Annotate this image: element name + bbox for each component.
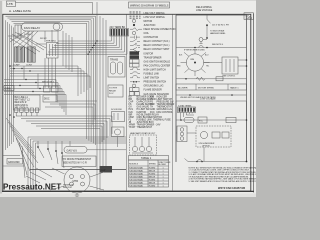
svg-text:MED-HI: MED-HI — [149, 176, 156, 178]
grounding lug GL — [199, 38, 207, 44]
svg-text:WHT NEUT L2: WHT NEUT L2 — [15, 100, 31, 102]
relay boxes mid — [44, 86, 59, 92]
wire bundle left vertical run — [63, 31, 72, 72]
outer diagram border frame — [2, 14, 254, 193]
svg-text:SERVICE: SERVICE — [63, 187, 72, 189]
svg-text:A. LABEL DATA: A. LABEL DATA — [9, 9, 32, 13]
wire — [16, 116, 112, 134]
legend column divider — [126, 15, 128, 191]
svg-text:JUNCTION: JUNCTION — [144, 25, 156, 27]
rung with pressure switch — [176, 46, 247, 49]
svg-text:BLOWER: BLOWER — [159, 164, 167, 166]
fan relay K1 capsule — [22, 23, 63, 32]
svg-text:FIELD WIRING: FIELD WIRING — [196, 7, 212, 9]
vertical wire cluster center — [45, 58, 56, 88]
label 115V supply — [212, 25, 229, 27]
wire — [31, 124, 104, 141]
low voltage top rail — [176, 101, 247, 162]
legend symbol RELAY CONTACT (N.O.) — [130, 39, 170, 43]
legend symbol JUNCTION — [133, 24, 156, 27]
wire — [46, 36, 127, 55]
legend symbol MOTOR — [132, 19, 152, 23]
gas valve GV pill — [64, 147, 126, 154]
svg-text:GAS IGNITION MODULE: GAS IGNITION MODULE — [144, 60, 171, 63]
ladder top rail — [176, 14, 247, 16]
contactor labels — [13, 65, 33, 67]
svg-text:1: 1 — [163, 167, 164, 169]
svg-text:CBM: CBM — [190, 59, 194, 61]
rung under label row — [176, 94, 247, 96]
wire — [4, 86, 60, 107]
svg-text:TUD080C942A0: TUD080C942A0 — [129, 172, 143, 175]
left diagonal wire bundle to lower-left — [6, 118, 38, 178]
svg-text:MOTOR: MOTOR — [144, 21, 153, 23]
wire — [10, 71, 84, 92]
blower motor B1 — [50, 167, 104, 193]
notes paragraph — [189, 166, 261, 183]
svg-text:WXYZ FAN 123457 M2: WXYZ FAN 123457 M2 — [218, 186, 246, 190]
junction box labels under transformer — [108, 85, 123, 97]
svg-text:MOTOR SPEED: MOTOR SPEED — [198, 87, 215, 89]
svg-text:GRN GND G: GRN GND G — [15, 105, 28, 107]
bottom rung with sensor — [185, 159, 248, 163]
legend symbol LIMIT SWITCH — [130, 75, 160, 79]
pin labels — [24, 34, 47, 40]
svg-text:SEE NOTES W Y G R: SEE NOTES W Y G R — [63, 162, 87, 165]
wire — [10, 69, 81, 95]
svg-text:TABLE 1: TABLE 1 — [230, 86, 239, 89]
legend symbol FAN CONTROL CENTER — [130, 63, 171, 67]
legend symbol RELAY CONTACT (N.C.) — [130, 43, 170, 47]
svg-text:24 V: 24 V — [109, 93, 114, 95]
wire — [28, 137, 126, 190]
contactor CC2 (hatched) — [27, 47, 35, 62]
wire — [10, 76, 90, 88]
paper background — [0, 0, 256, 197]
drawing number — [218, 186, 246, 190]
svg-text:RELAY: RELAY — [109, 89, 117, 92]
svg-text:TRANSFORMER: TRANSFORMER — [144, 56, 162, 59]
svg-text:HTR SEQ: HTR SEQ — [46, 41, 56, 43]
svg-text:LOW VOLTAGE: LOW VOLTAGE — [200, 98, 216, 101]
svg-text:TUD140C960A0: TUD140C960A0 — [129, 181, 143, 184]
svg-text:5. SEE UNIT NAMEPLATE FOR ELEC: 5. SEE UNIT NAMEPLATE FOR ELECTRICAL RAT… — [189, 180, 257, 183]
svg-text:TSTAT: TSTAT — [129, 126, 137, 129]
svg-text:FIELD SPLICE CONNECTION: FIELD SPLICE CONNECTION — [144, 29, 176, 31]
ladder left rail — [175, 15, 177, 162]
table 1 grid — [129, 160, 172, 187]
svg-text:TUD100C948A0: TUD100C948A0 — [129, 175, 143, 178]
wire — [4, 89, 62, 110]
rung with heater element — [176, 77, 247, 81]
legend symbol FIELD SPLICE CONNECTION — [130, 28, 176, 31]
thermostat hookup label block — [62, 156, 96, 167]
label A. LABEL DATA — [9, 9, 32, 13]
wire — [54, 36, 117, 47]
svg-text:115 V 60 HZ 1 PH: 115 V 60 HZ 1 PH — [212, 25, 229, 27]
svg-text:GRN: GRN — [5, 87, 11, 91]
svg-text:Pressauto.NET: Pressauto.NET — [3, 183, 61, 192]
transformer T1 — [108, 57, 125, 78]
svg-text:TO HTR: TO HTR — [109, 88, 118, 90]
blower door switch S2 — [111, 109, 125, 122]
legend title box — [129, 2, 170, 8]
upper feeder wires into elbow stack — [45, 101, 97, 125]
aux switch box — [43, 95, 57, 102]
svg-text:BLOWER: BLOWER — [178, 87, 188, 89]
legend symbol GAS VALVE SOLENOID — [130, 92, 170, 96]
wire bundle from relay to contactors — [10, 30, 58, 50]
wire — [4, 83, 58, 104]
junction dots left rail — [9, 65, 15, 118]
svg-text:RELAY CONTACT (N.C.): RELAY CONTACT (N.C.) — [144, 44, 170, 47]
svg-text:IF WHITE WIRE IS USED: IF WHITE WIRE IS USED — [184, 50, 205, 52]
svg-text:FUSIBLE LINK, THERMAL FUSE: FUSIBLE LINK, THERMAL FUSE — [137, 118, 172, 121]
svg-text:LIMIT SWITCH: LIMIT SWITCH — [144, 78, 160, 80]
wires dropping to motor area — [38, 141, 70, 168]
svg-text:LOW VOLT WIRING: LOW VOLT WIRING — [144, 17, 165, 19]
title block label box top-left — [7, 1, 16, 7]
svg-text:HIGH LIMIT SWITCH: HIGH LIMIT SWITCH — [144, 70, 167, 72]
svg-text:FAN CONTROL CENTER: FAN CONTROL CENTER — [144, 64, 171, 67]
abbreviation list — [129, 97, 175, 130]
legend symbol CONTACTOR — [130, 36, 158, 40]
wire — [21, 119, 110, 137]
legend symbol IGNITOR — [130, 51, 154, 55]
wire elbows lower-left — [26, 168, 52, 183]
legend symbol LINE VOLT WIRING — [130, 12, 165, 15]
label above motor — [184, 50, 205, 52]
svg-text:DISC: DISC — [44, 99, 50, 101]
wire — [36, 126, 102, 142]
wire — [31, 139, 127, 190]
svg-text:IND BLOWER RELAY: IND BLOWER RELAY — [137, 113, 160, 116]
svg-text:CONTACTOR: CONTACTOR — [144, 36, 159, 39]
svg-text:1: 1 — [163, 176, 164, 178]
label row blower motor — [176, 84, 247, 90]
wire — [26, 121, 107, 138]
svg-text:GAS VLV: GAS VLV — [67, 149, 78, 152]
connector stubs — [24, 66, 38, 89]
svg-text:FLAME SENSOR: FLAME SENSOR — [144, 89, 163, 92]
wires motor to box to rail — [204, 59, 248, 67]
svg-text:HI-MED: HI-MED — [149, 185, 156, 187]
svg-text:RELAY CONTACT SPDT: RELAY CONTACT SPDT — [144, 48, 171, 51]
svg-text:SPEED: SPEED — [149, 163, 157, 165]
contactor CC1 (hatched) — [15, 47, 25, 62]
svg-text:OPTION: OPTION — [202, 145, 210, 147]
svg-text:1: 1 — [163, 179, 164, 181]
wire — [50, 36, 122, 51]
svg-text:FUSIBLE LINK: FUSIBLE LINK — [144, 74, 160, 76]
svg-text:COIL: COIL — [144, 33, 150, 35]
svg-text:TUD060C936A0: TUD060C936A0 — [129, 169, 143, 172]
low volt terminal comb — [178, 104, 196, 112]
svg-text:1: 1 — [163, 185, 164, 187]
svg-text:RELAY CONTACT (N.O.): RELAY CONTACT (N.O.) — [144, 40, 170, 43]
field wiring caption — [196, 7, 213, 12]
svg-text:MODELS: MODELS — [129, 163, 138, 165]
table 1 header — [129, 156, 169, 161]
svg-text:IGNITOR: IGNITOR — [144, 53, 154, 55]
svg-text:R C NO: R C NO — [24, 34, 31, 36]
svg-text:TRANSFORMER: TRANSFORMER — [157, 103, 175, 106]
svg-text:1: 1 — [163, 173, 164, 175]
circulating blower motor CBM with taps — [177, 49, 210, 76]
legend symbol FLAME SENSOR — [130, 88, 163, 92]
svg-text:WIRING DIAGRAM SYMBOLS: WIRING DIAGRAM SYMBOLS — [130, 4, 169, 8]
junction dots on bundle — [19, 68, 40, 92]
svg-text:HANDLER PANEL: HANDLER PANEL — [210, 32, 226, 35]
low voltage terminal board TB2 — [110, 26, 129, 36]
wire — [58, 36, 111, 42]
wire — [10, 74, 87, 91]
wire — [36, 143, 127, 190]
legend symbol GAS IGNITION MODULE — [130, 59, 171, 63]
svg-text:GROUNDING LUG: GROUNDING LUG — [144, 86, 164, 88]
cabinet outline wires (nested) — [6, 16, 96, 150]
svg-text:TUD120C960A0: TUD120C960A0 — [129, 178, 143, 181]
wire — [4, 95, 66, 116]
terminal stack with eyelets — [177, 126, 187, 142]
equipment ground box — [244, 13, 254, 20]
watermark Pressauto.NET — [3, 183, 74, 192]
junction dots on feed line — [37, 146, 63, 154]
svg-text:LINE VOLTAGE: LINE VOLTAGE — [196, 9, 213, 12]
svg-text:PRESSURE SWITCH: PRESSURE SWITCH — [144, 82, 167, 84]
wire — [4, 80, 56, 101]
svg-text:HI-MED: HI-MED — [149, 173, 156, 175]
svg-text:1: 1 — [163, 182, 164, 184]
see note text — [42, 82, 55, 84]
svg-text:HI-MED: HI-MED — [149, 179, 156, 181]
legend symbol PRESSURE SWITCH — [130, 81, 166, 84]
svg-text:T-STAT TERMS: T-STAT TERMS — [178, 104, 192, 107]
svg-text:MED-HI: MED-HI — [149, 170, 156, 172]
ladder right rail — [246, 15, 248, 162]
legend symbol HIGH LIMIT SWITCH — [130, 67, 166, 71]
svg-text:GROUND: GROUND — [8, 160, 20, 164]
svg-text:TRANS: TRANS — [110, 59, 119, 62]
main feed wire to motor — [30, 169, 126, 171]
heat anticipator sub-circuit — [130, 132, 157, 155]
fan control box — [222, 57, 238, 78]
wire — [56, 36, 114, 44]
low voltage caption — [200, 98, 216, 101]
svg-text:1: 1 — [163, 170, 164, 172]
svg-text:TUD160C960A0: TUD160C960A0 — [129, 184, 143, 187]
svg-text:LINE VOLT WIRING: LINE VOLT WIRING — [144, 13, 165, 15]
svg-text:LTB: LTB — [7, 2, 12, 6]
svg-text:RED 24V R: RED 24V R — [15, 102, 27, 104]
svg-text:THERMOSTAT: THERMOSTAT — [137, 126, 153, 129]
ground symbol at motor — [75, 193, 79, 196]
section divider line — [171, 15, 173, 192]
svg-text:HEAT ANTICIPATOR CKT: HEAT ANTICIPATOR CKT — [130, 132, 156, 135]
svg-text:YEL: YEL — [206, 66, 209, 68]
terminal strip TB1 text block — [14, 95, 41, 110]
grounding label lower-left — [7, 159, 23, 165]
legend symbol GROUNDING LUG — [132, 84, 163, 88]
rung 24v components — [176, 117, 247, 123]
wire from label box to top-right — [16, 2, 93, 14]
svg-text:SEE NOTE 4: SEE NOTE 4 — [212, 44, 223, 46]
capacitor C1 — [15, 25, 21, 38]
svg-text:FCC: FCC — [199, 120, 204, 122]
wire — [48, 36, 124, 53]
svg-text:SEE NOTE 3: SEE NOTE 3 — [42, 82, 55, 84]
speed tap note — [180, 96, 217, 99]
note to indoor unit — [210, 30, 226, 36]
ground lug label — [4, 86, 14, 91]
svg-text:DOOR SW: DOOR SW — [111, 109, 123, 111]
svg-text:CAP: CAP — [101, 169, 106, 172]
wire — [10, 66, 78, 96]
svg-text:GAS VALVE SOLENOID: GAS VALVE SOLENOID — [144, 93, 170, 96]
svg-text:TUD040C924A0: TUD040C924A0 — [129, 166, 143, 169]
disconnect switch S3 — [206, 15, 210, 39]
wire stubs at ground label — [3, 156, 24, 167]
svg-text:FAN CONTROL: FAN CONTROL — [223, 75, 236, 78]
note see note 4 — [212, 44, 223, 46]
wire — [33, 141, 126, 190]
wire — [52, 36, 119, 49]
heat sequencer HS1 — [46, 41, 58, 59]
wire — [4, 92, 64, 113]
humidifier option dashed box — [196, 126, 231, 147]
terminal block squares — [15, 108, 39, 116]
wire — [41, 129, 100, 145]
riser wires center column — [97, 2, 106, 190]
wires from comb down — [181, 113, 195, 121]
svg-text:MTR: MTR — [73, 179, 79, 183]
wire — [176, 133, 204, 162]
limit switch LS1 — [112, 127, 125, 147]
legend symbol TRANSFORMER — [130, 55, 162, 59]
run capacitor C2 (dark) — [100, 166, 113, 173]
svg-text:HI-MED: HI-MED — [149, 167, 156, 169]
legend symbol LOW VOLT WIRING — [130, 16, 165, 19]
legend symbol RELAY CONTACT SPDT — [130, 47, 170, 51]
svg-text:FAN RELAY: FAN RELAY — [24, 26, 40, 30]
svg-text:TRANSFORMER - 24V: TRANSFORMER - 24V — [137, 124, 161, 127]
svg-text:TABLE 1: TABLE 1 — [141, 156, 152, 160]
svg-text:BLK LINE L1: BLK LINE L1 — [15, 97, 29, 99]
svg-text:MED-HI: MED-HI — [149, 182, 156, 184]
legend symbol FUSIBLE LINK — [130, 72, 159, 76]
crossing wires — [8, 31, 46, 54]
legend symbol COIL — [132, 31, 149, 35]
